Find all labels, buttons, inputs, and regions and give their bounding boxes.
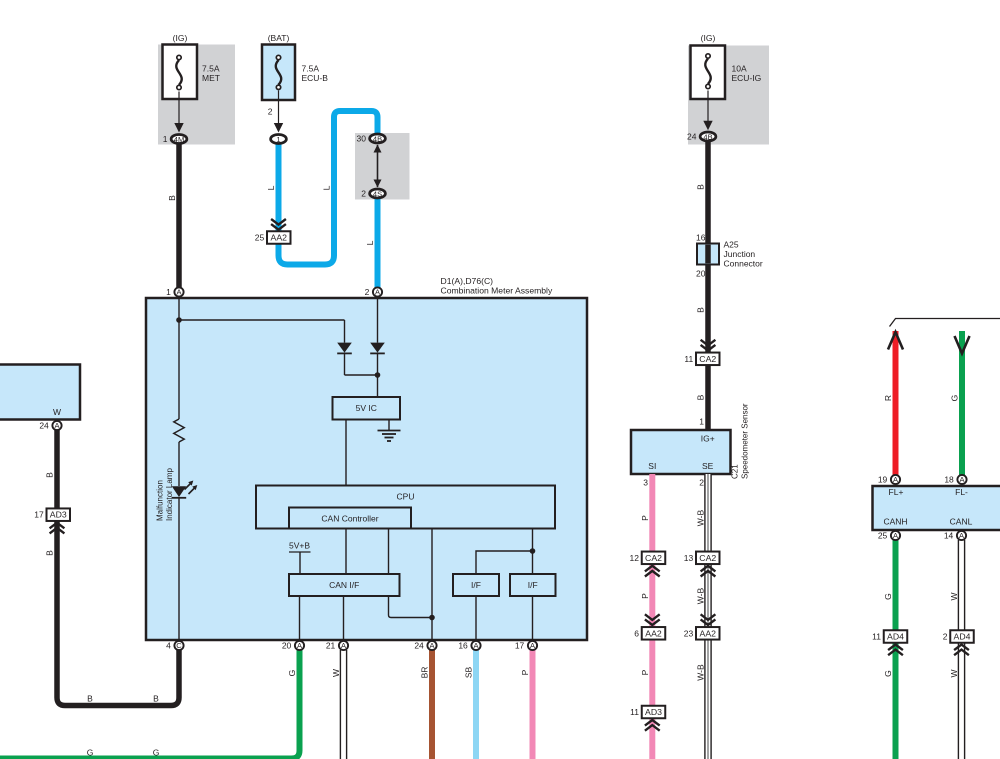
svg-text:11: 11 xyxy=(630,707,639,717)
svg-text:CA2: CA2 xyxy=(699,553,716,563)
svg-text:IG+: IG+ xyxy=(701,433,715,443)
svg-text:17: 17 xyxy=(515,640,525,650)
svg-text:FL+: FL+ xyxy=(889,487,904,497)
svg-text:AA2: AA2 xyxy=(271,233,288,243)
svg-text:19: 19 xyxy=(878,474,888,484)
svg-text:A: A xyxy=(959,475,964,484)
svg-text:A25: A25 xyxy=(724,240,739,250)
svg-text:B: B xyxy=(45,550,55,556)
svg-text:W: W xyxy=(949,669,959,677)
svg-text:1: 1 xyxy=(276,135,280,144)
svg-text:I/F: I/F xyxy=(528,580,538,590)
svg-text:L: L xyxy=(365,240,375,245)
svg-text:4B: 4B xyxy=(703,132,712,141)
svg-text:25: 25 xyxy=(878,530,888,540)
svg-text:17: 17 xyxy=(34,510,44,520)
svg-text:2: 2 xyxy=(365,287,370,297)
svg-text:SE: SE xyxy=(702,461,714,471)
svg-text:G: G xyxy=(153,748,160,758)
svg-text:G: G xyxy=(287,670,297,677)
svg-text:CAN I/F: CAN I/F xyxy=(329,580,359,590)
svg-text:G: G xyxy=(87,748,94,758)
svg-text:P: P xyxy=(640,669,650,675)
svg-text:A: A xyxy=(473,641,478,650)
svg-text:1: 1 xyxy=(166,287,171,297)
svg-text:W: W xyxy=(949,592,959,600)
svg-text:C: C xyxy=(176,641,182,650)
svg-text:AA2: AA2 xyxy=(700,628,717,638)
svg-text:Speedometer Sensor: Speedometer Sensor xyxy=(741,403,750,479)
svg-text:G: G xyxy=(950,395,960,402)
svg-text:B: B xyxy=(167,195,177,201)
svg-text:B: B xyxy=(87,694,93,704)
svg-text:B: B xyxy=(153,694,159,704)
svg-text:4B: 4B xyxy=(373,134,382,143)
svg-text:20: 20 xyxy=(696,269,706,279)
svg-text:W: W xyxy=(331,669,341,677)
svg-text:B: B xyxy=(696,184,706,190)
svg-text:2: 2 xyxy=(268,107,273,117)
svg-text:A: A xyxy=(893,475,898,484)
svg-text:G: G xyxy=(883,593,893,600)
svg-text:B: B xyxy=(696,307,706,313)
svg-text:G: G xyxy=(883,670,893,677)
svg-text:2: 2 xyxy=(361,188,366,198)
svg-text:W-B: W-B xyxy=(696,509,706,526)
svg-text:13: 13 xyxy=(684,553,694,563)
svg-text:D1(A),D76(C): D1(A),D76(C) xyxy=(441,276,494,286)
svg-text:Junction: Junction xyxy=(724,249,756,259)
svg-text:24: 24 xyxy=(414,640,424,650)
svg-text:MET: MET xyxy=(202,73,220,83)
svg-text:AD3: AD3 xyxy=(645,707,662,717)
svg-text:BR: BR xyxy=(420,667,430,679)
svg-text:18: 18 xyxy=(944,474,954,484)
svg-text:CA2: CA2 xyxy=(645,553,662,563)
svg-text:CANH: CANH xyxy=(883,517,907,527)
svg-text:I/F: I/F xyxy=(471,580,481,590)
svg-text:A: A xyxy=(375,288,380,297)
svg-text:Combination Meter Assembly: Combination Meter Assembly xyxy=(441,286,553,296)
svg-text:6: 6 xyxy=(634,628,639,638)
svg-text:Indicator Lamp: Indicator Lamp xyxy=(165,468,174,521)
svg-text:Connector: Connector xyxy=(724,259,763,269)
svg-text:C21: C21 xyxy=(731,464,740,479)
svg-text:A: A xyxy=(959,531,964,540)
svg-text:W-B: W-B xyxy=(696,664,706,681)
svg-text:A: A xyxy=(530,641,535,650)
svg-text:A: A xyxy=(893,531,898,540)
svg-text:AD3: AD3 xyxy=(50,510,67,520)
svg-text:SB: SB xyxy=(464,667,474,679)
svg-text:P: P xyxy=(520,669,530,675)
svg-text:A: A xyxy=(341,641,346,650)
svg-text:AA2: AA2 xyxy=(645,628,662,638)
svg-text:A: A xyxy=(429,641,434,650)
svg-text:CANL: CANL xyxy=(950,517,973,527)
svg-text:21: 21 xyxy=(326,640,336,650)
svg-text:11: 11 xyxy=(684,354,693,364)
svg-text:30: 30 xyxy=(357,133,367,143)
svg-text:12: 12 xyxy=(630,553,640,563)
svg-text:2: 2 xyxy=(699,478,704,488)
svg-text:R: R xyxy=(883,395,893,401)
svg-text:5V+B: 5V+B xyxy=(289,541,310,551)
svg-text:24: 24 xyxy=(687,131,697,141)
svg-text:L: L xyxy=(322,185,332,190)
svg-text:CAN Controller: CAN Controller xyxy=(321,514,378,524)
svg-text:24: 24 xyxy=(39,420,49,430)
svg-text:1: 1 xyxy=(163,134,168,144)
svg-text:W-B: W-B xyxy=(696,587,706,604)
svg-text:5V IC: 5V IC xyxy=(356,403,377,413)
svg-text:A: A xyxy=(176,288,181,297)
svg-text:B: B xyxy=(696,394,706,400)
svg-text:ECU-IG: ECU-IG xyxy=(732,73,762,83)
svg-text:AD4: AD4 xyxy=(887,632,904,642)
svg-text:W: W xyxy=(53,407,61,417)
svg-text:4: 4 xyxy=(166,640,171,650)
svg-text:A: A xyxy=(54,421,59,430)
svg-text:1: 1 xyxy=(699,417,704,427)
svg-text:L: L xyxy=(266,185,276,190)
svg-text:25: 25 xyxy=(255,233,265,243)
svg-text:A: A xyxy=(297,641,302,650)
svg-text:16: 16 xyxy=(458,640,468,650)
svg-text:Malfunction: Malfunction xyxy=(156,480,165,521)
svg-text:SI: SI xyxy=(648,461,656,471)
svg-text:AD4: AD4 xyxy=(954,632,971,642)
svg-text:3: 3 xyxy=(643,478,648,488)
svg-text:(IG): (IG) xyxy=(701,33,716,43)
svg-text:(BAT): (BAT) xyxy=(268,33,290,43)
svg-text:CPU: CPU xyxy=(397,492,415,502)
svg-text:11: 11 xyxy=(872,632,881,642)
svg-text:2: 2 xyxy=(943,632,948,642)
svg-text:B: B xyxy=(45,472,55,478)
svg-text:20: 20 xyxy=(282,640,292,650)
svg-text:4S: 4S xyxy=(373,189,382,198)
svg-text:14: 14 xyxy=(944,530,954,540)
svg-text:CA2: CA2 xyxy=(699,354,716,364)
svg-text:ECU-B: ECU-B xyxy=(302,73,329,83)
svg-text:23: 23 xyxy=(684,628,694,638)
svg-text:(IG): (IG) xyxy=(173,33,188,43)
svg-text:16: 16 xyxy=(696,233,706,243)
svg-text:FL-: FL- xyxy=(955,487,968,497)
svg-text:P: P xyxy=(640,593,650,599)
svg-text:P: P xyxy=(640,515,650,521)
svg-text:4M: 4M xyxy=(174,135,184,144)
